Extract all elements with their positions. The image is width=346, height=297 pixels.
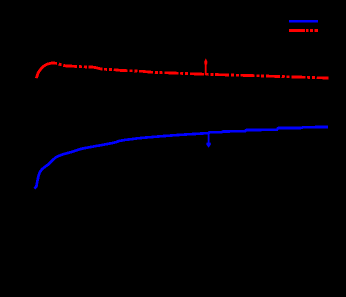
blue down arrow [206, 134, 211, 148]
red up arrow [204, 58, 207, 75]
legend blue line [289, 20, 318, 23]
blue curve (solid, lower) [34, 127, 328, 188]
red curve (dashed, upper): solid initial climb [36, 63, 54, 78]
legend red dashed line [289, 29, 318, 32]
red curve (dashed, upper): dashed tail [54, 63, 329, 78]
